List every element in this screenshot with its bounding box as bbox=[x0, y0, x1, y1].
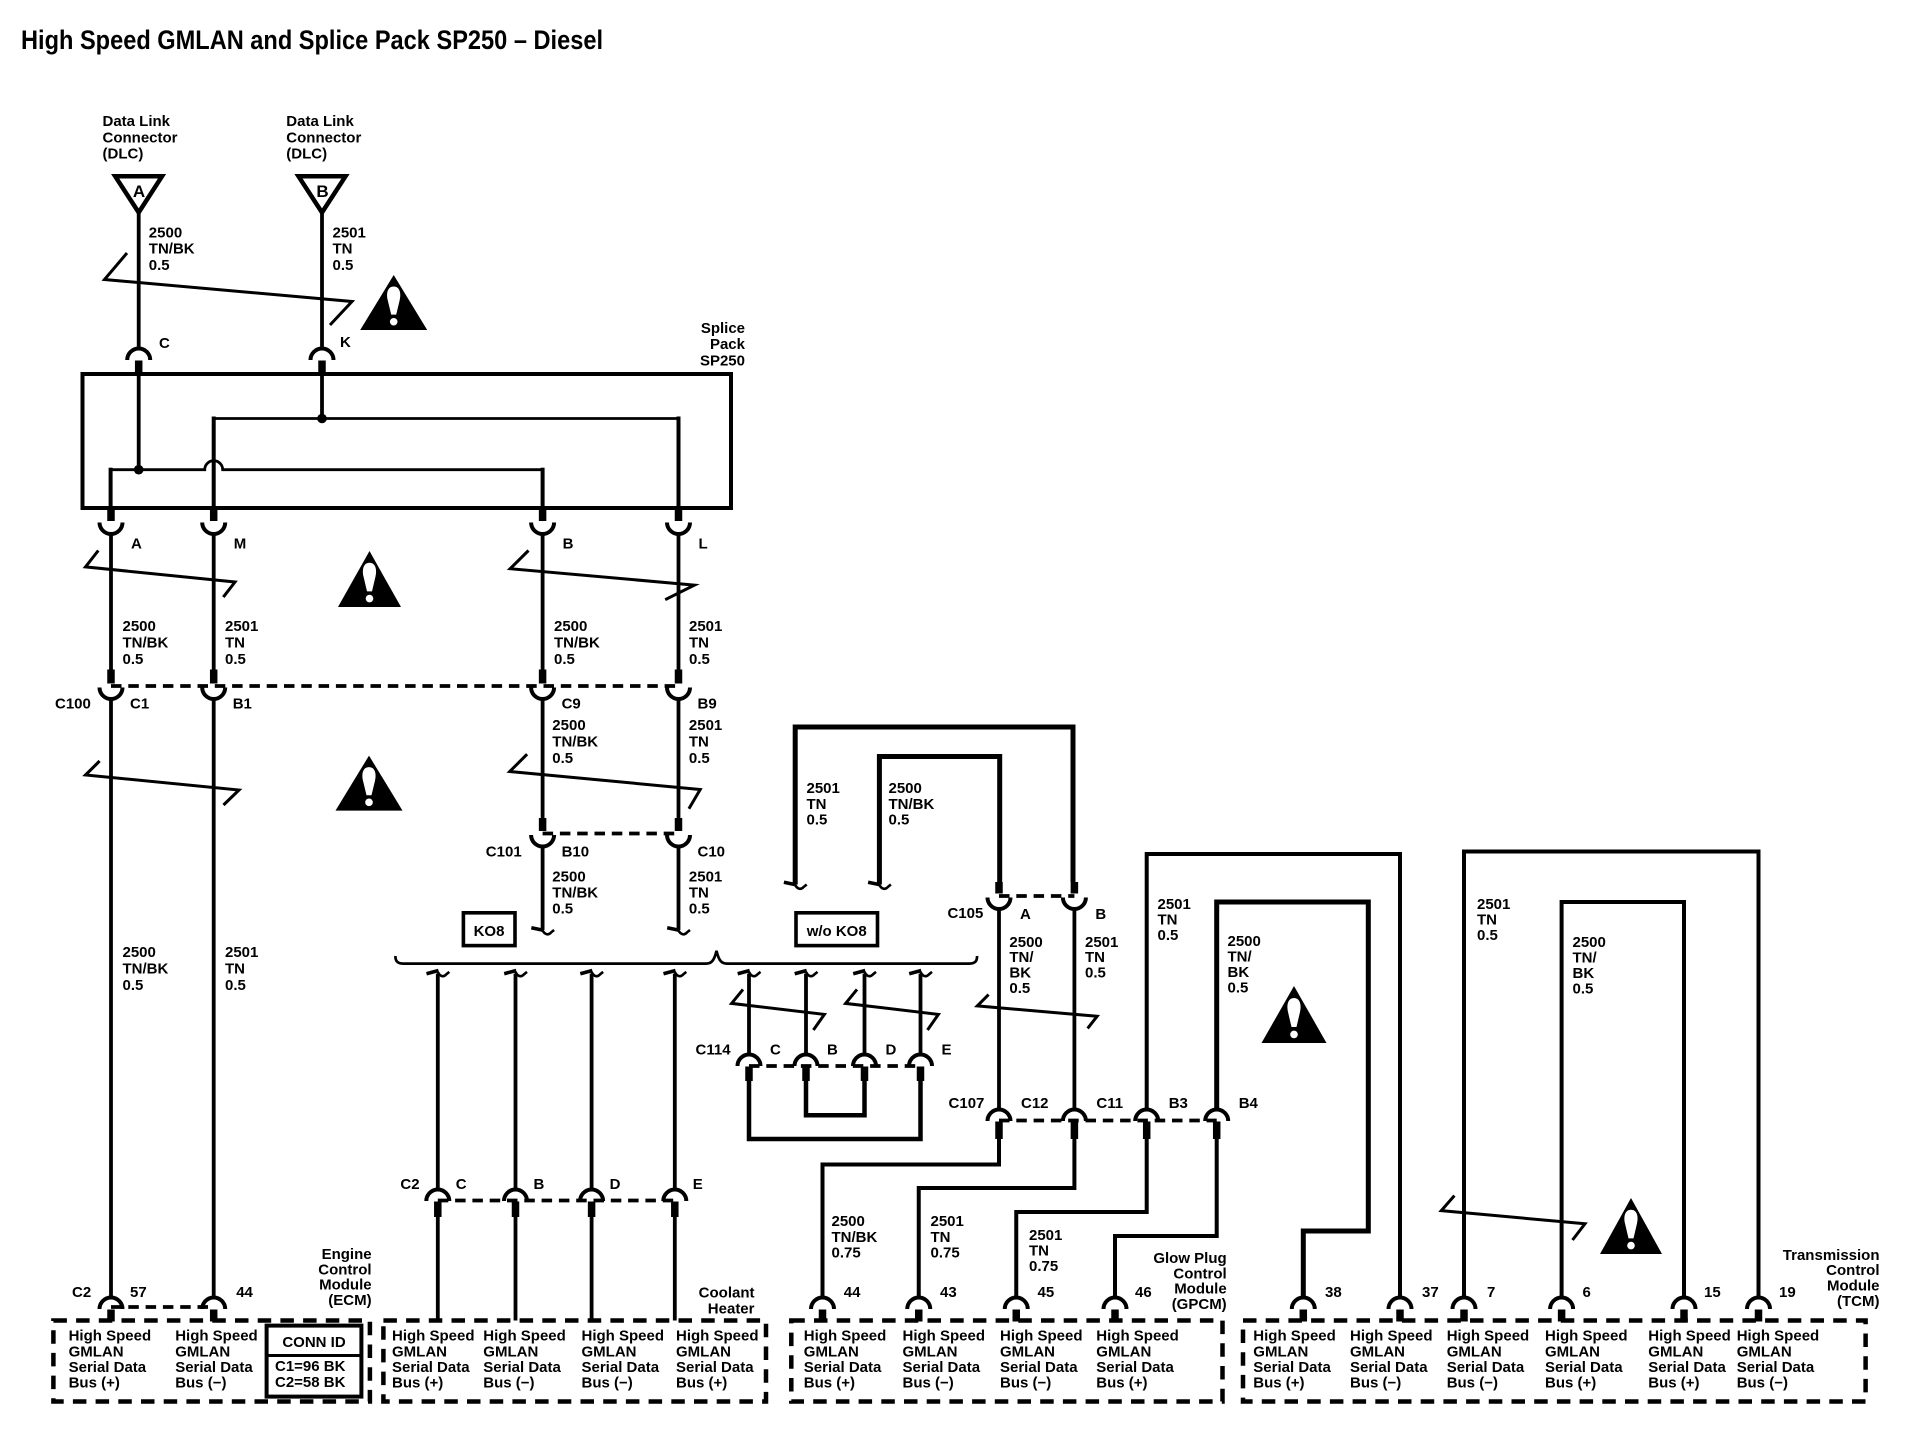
inline connector C101 dashed line bbox=[543, 832, 679, 836]
svg-text:C101: C101 bbox=[486, 844, 522, 861]
connector C2 coolant heater pin C bbox=[426, 1176, 467, 1217]
svg-text:High Speed: High Speed bbox=[392, 1328, 475, 1345]
svg-text:M: M bbox=[234, 536, 247, 553]
svg-text:A: A bbox=[1020, 906, 1031, 923]
connector C105 pin B bbox=[1063, 882, 1107, 923]
svg-text:0.5: 0.5 bbox=[689, 901, 710, 918]
wire C114 pin E from w/o KO8 bus bbox=[909, 971, 932, 1055]
wire coolant heater pin D from KO8 bus bbox=[580, 971, 603, 1191]
svg-text:C114: C114 bbox=[696, 1042, 732, 1059]
connector C2 coolant heater pin E bbox=[663, 1176, 703, 1217]
svg-text:C2: C2 bbox=[400, 1176, 419, 1193]
warning triangle 3 bbox=[336, 756, 403, 811]
svg-text:B1: B1 bbox=[233, 696, 252, 713]
svg-text:TN: TN bbox=[1158, 912, 1178, 929]
svg-text:38: 38 bbox=[1325, 1284, 1342, 1301]
svg-text:D: D bbox=[610, 1176, 621, 1193]
splice pack pin A bbox=[100, 508, 143, 553]
svg-text:High Speed: High Speed bbox=[69, 1328, 152, 1345]
wire 2501 C107-B3 to pin 37 bbox=[1147, 854, 1400, 1298]
KO8 option box bbox=[463, 913, 515, 946]
svg-text:TN: TN bbox=[1477, 912, 1497, 929]
svg-text:44: 44 bbox=[236, 1284, 253, 1301]
connector C100 pin B1 bbox=[202, 670, 252, 713]
inline connector C100 dashed line bbox=[111, 684, 679, 688]
svg-text:High Speed: High Speed bbox=[582, 1328, 665, 1345]
svg-text:TN: TN bbox=[1029, 1243, 1049, 1260]
loop wire 2500 TN/BK to C105 pin A bbox=[868, 757, 1000, 889]
svg-text:C2: C2 bbox=[72, 1284, 91, 1301]
svg-text:TN/BK: TN/BK bbox=[554, 635, 600, 652]
wire C107-B4 to GPCM pin 46 bbox=[1115, 1139, 1217, 1298]
svg-text:A: A bbox=[133, 182, 145, 201]
svg-text:2501: 2501 bbox=[1477, 896, 1510, 913]
splice pack pin M bbox=[202, 508, 246, 553]
svg-text:GMLAN: GMLAN bbox=[903, 1343, 958, 1360]
svg-text:Bus (+): Bus (+) bbox=[1648, 1375, 1699, 1392]
svg-text:GMLAN: GMLAN bbox=[1253, 1343, 1308, 1360]
wire coolant heater lead bbox=[673, 1217, 677, 1321]
twisted pair symbol (wires B/L) bbox=[510, 551, 694, 600]
svg-text:C100: C100 bbox=[55, 696, 91, 713]
splice pack pin K bbox=[311, 334, 352, 374]
svg-text:GMLAN: GMLAN bbox=[1096, 1343, 1151, 1360]
svg-text:46: 46 bbox=[1135, 1284, 1152, 1301]
svg-text:0.5: 0.5 bbox=[554, 651, 575, 668]
wire 2500 C107-B4 to pin 38 bbox=[1217, 902, 1369, 1298]
wire L (2501) C100 to C101 bbox=[677, 699, 681, 819]
svg-text:SP250: SP250 bbox=[700, 352, 745, 369]
svg-text:Bus (−): Bus (−) bbox=[1447, 1375, 1498, 1392]
svg-text:2501: 2501 bbox=[225, 944, 258, 961]
svg-text:Serial Data: Serial Data bbox=[1545, 1359, 1623, 1376]
wire C107-C11 to GPCM pin 43 bbox=[919, 1139, 1075, 1298]
svg-text:TN: TN bbox=[333, 241, 353, 258]
w/o KO8 option box bbox=[796, 913, 878, 946]
svg-text:2500: 2500 bbox=[552, 717, 585, 734]
svg-text:B: B bbox=[1095, 906, 1106, 923]
connector C105 pin A bbox=[988, 882, 1032, 923]
svg-text:C1: C1 bbox=[130, 696, 149, 713]
wire coolant heater lead bbox=[590, 1217, 594, 1321]
svg-text:TN: TN bbox=[689, 635, 709, 652]
svg-text:2501: 2501 bbox=[689, 618, 722, 635]
svg-text:Serial Data: Serial Data bbox=[804, 1359, 882, 1376]
svg-text:2501: 2501 bbox=[807, 780, 840, 797]
svg-text:37: 37 bbox=[1422, 1284, 1439, 1301]
connector TCM pin 15 bbox=[1673, 1284, 1721, 1322]
svg-text:C107: C107 bbox=[949, 1095, 985, 1112]
svg-text:Splice: Splice bbox=[701, 320, 745, 337]
ECM module box bbox=[53, 1321, 370, 1402]
svg-text:C1=96 BK: C1=96 BK bbox=[275, 1358, 346, 1375]
svg-text:0.5: 0.5 bbox=[225, 651, 246, 668]
svg-text:C9: C9 bbox=[562, 696, 581, 713]
svg-text:0.75: 0.75 bbox=[832, 1244, 861, 1261]
svg-text:Serial Data: Serial Data bbox=[1648, 1359, 1726, 1376]
splice pack SP250 box bbox=[83, 374, 732, 508]
connector GPCM pin 44 bbox=[811, 1284, 861, 1322]
connector GPCM pin 43 bbox=[907, 1284, 956, 1322]
svg-text:15: 15 bbox=[1704, 1284, 1721, 1301]
wire C114 pin D from w/o KO8 bus bbox=[853, 971, 876, 1055]
connector C2 (ECM) dashed line bbox=[111, 1305, 214, 1309]
connector C101 pin B10 bbox=[531, 818, 589, 861]
svg-text:L: L bbox=[699, 536, 708, 553]
svg-text:B: B bbox=[563, 536, 574, 553]
svg-text:0.5: 0.5 bbox=[1009, 980, 1030, 997]
svg-text:TN/BK: TN/BK bbox=[149, 241, 195, 258]
svg-text:Bus (+): Bus (+) bbox=[804, 1375, 855, 1392]
svg-text:E: E bbox=[693, 1176, 703, 1193]
svg-text:Data Link: Data Link bbox=[286, 113, 354, 130]
svg-text:Bus (−): Bus (−) bbox=[1350, 1375, 1401, 1392]
wire B10 (2500) to KO8 bus bbox=[531, 847, 554, 935]
DLC terminal A triangle bbox=[115, 176, 162, 212]
svg-text:B: B bbox=[316, 182, 328, 201]
svg-text:Bus (+): Bus (+) bbox=[1545, 1375, 1596, 1392]
connector C114 pin C bbox=[738, 1042, 782, 1082]
svg-text:GMLAN: GMLAN bbox=[483, 1343, 538, 1360]
wire 2501 C105-B to C107-C11 bbox=[1073, 909, 1077, 1111]
connector C100 pin C1 bbox=[100, 670, 150, 713]
svg-text:2501: 2501 bbox=[689, 717, 722, 734]
wire coolant heater lead bbox=[514, 1217, 518, 1321]
svg-text:B: B bbox=[827, 1042, 838, 1059]
svg-text:GMLAN: GMLAN bbox=[392, 1343, 447, 1360]
wire B (2500) C100 to C101 bbox=[541, 699, 545, 819]
warning triangle 2 bbox=[338, 551, 401, 607]
CONN ID table bbox=[267, 1326, 362, 1397]
wire M (2501) C100 to ECM pin 44 bbox=[212, 699, 216, 1298]
wire coolant heater pin E from KO8 bus bbox=[664, 971, 687, 1191]
svg-text:0.5: 0.5 bbox=[1573, 980, 1594, 997]
connector C100 pin B9 bbox=[667, 670, 717, 713]
svg-text:19: 19 bbox=[1779, 1284, 1796, 1301]
svg-text:Serial Data: Serial Data bbox=[903, 1359, 981, 1376]
svg-text:Coolant: Coolant bbox=[699, 1284, 755, 1301]
svg-text:TN: TN bbox=[225, 960, 245, 977]
svg-text:Serial Data: Serial Data bbox=[1737, 1359, 1815, 1376]
svg-text:D: D bbox=[886, 1042, 897, 1059]
wire 2501 TN from DLC B to splice pack pin K bbox=[320, 213, 324, 350]
connector pin 38 bbox=[1292, 1284, 1342, 1322]
svg-text:Bus (+): Bus (+) bbox=[392, 1375, 443, 1392]
inline connector C107 dashed line bbox=[999, 1119, 1217, 1123]
connector C107 pin B4 bbox=[1205, 1095, 1258, 1139]
svg-text:CONN ID: CONN ID bbox=[282, 1334, 346, 1351]
svg-text:C: C bbox=[770, 1042, 781, 1059]
svg-text:GMLAN: GMLAN bbox=[676, 1343, 731, 1360]
svg-text:High Speed: High Speed bbox=[1737, 1328, 1820, 1345]
coolant heater module box bbox=[383, 1321, 766, 1402]
svg-text:2501: 2501 bbox=[1029, 1227, 1062, 1244]
svg-text:Serial Data: Serial Data bbox=[1096, 1359, 1174, 1376]
svg-text:Bus (−): Bus (−) bbox=[175, 1375, 226, 1392]
wire 2500 C105-A to C107-C12 bbox=[997, 909, 1001, 1111]
connector C114 pin E bbox=[909, 1042, 952, 1082]
svg-text:High Speed: High Speed bbox=[175, 1328, 258, 1345]
svg-text:TN/BK: TN/BK bbox=[123, 635, 169, 652]
splice pack pin L bbox=[667, 508, 708, 553]
svg-text:Serial Data: Serial Data bbox=[175, 1359, 253, 1376]
wire C114 pin B from w/o KO8 bus bbox=[795, 971, 818, 1055]
connector TCM pin 7 bbox=[1453, 1284, 1496, 1322]
svg-text:TN/BK: TN/BK bbox=[123, 960, 169, 977]
svg-text:0.75: 0.75 bbox=[931, 1244, 960, 1261]
svg-text:0.5: 0.5 bbox=[1085, 965, 1106, 982]
svg-text:Data Link: Data Link bbox=[103, 113, 171, 130]
svg-text:GMLAN: GMLAN bbox=[1447, 1343, 1502, 1360]
svg-text:High Speed: High Speed bbox=[1096, 1328, 1179, 1345]
twisted pair symbol (C114 wires C/B) bbox=[732, 989, 825, 1030]
svg-text:0.5: 0.5 bbox=[889, 812, 910, 829]
svg-text:B3: B3 bbox=[1169, 1095, 1188, 1112]
svg-text:Serial Data: Serial Data bbox=[582, 1359, 660, 1376]
svg-text:GMLAN: GMLAN bbox=[1000, 1343, 1055, 1360]
svg-text:High Speed: High Speed bbox=[1648, 1328, 1731, 1345]
wire segment M (2501) splice pack to C100 bbox=[212, 534, 216, 670]
wire segment A (2500) splice pack to C100 bbox=[109, 534, 113, 670]
svg-text:Bus (+): Bus (+) bbox=[676, 1375, 727, 1392]
svg-text:TN: TN bbox=[931, 1229, 951, 1246]
svg-text:A: A bbox=[131, 536, 142, 553]
svg-text:B10: B10 bbox=[562, 844, 590, 861]
inline connector C105 dashed line bbox=[999, 894, 1074, 898]
svg-text:(GPCM): (GPCM) bbox=[1172, 1296, 1227, 1313]
wire C10 (2501) to KO8 bus bbox=[667, 847, 690, 935]
wire 2500 TN/BK from DLC A to splice pack pin C bbox=[137, 213, 141, 350]
svg-text:Bus (+): Bus (+) bbox=[69, 1375, 120, 1392]
svg-text:Serial Data: Serial Data bbox=[676, 1359, 754, 1376]
warning triangle 5 bbox=[1600, 1198, 1662, 1254]
svg-text:0.5: 0.5 bbox=[123, 977, 144, 994]
svg-text:B4: B4 bbox=[1239, 1095, 1259, 1112]
svg-text:2500: 2500 bbox=[832, 1213, 865, 1230]
svg-text:Connector: Connector bbox=[286, 129, 361, 146]
jumper C114 B to D bbox=[806, 1079, 865, 1115]
connector TCM pin 19 bbox=[1747, 1284, 1796, 1322]
svg-text:High Speed: High Speed bbox=[903, 1328, 986, 1345]
svg-text:Serial Data: Serial Data bbox=[1000, 1359, 1078, 1376]
svg-text:0.5: 0.5 bbox=[552, 901, 573, 918]
svg-text:6: 6 bbox=[1583, 1284, 1591, 1301]
svg-text:High Speed: High Speed bbox=[1253, 1328, 1336, 1345]
inline connector C2 (coolant heater) dashed line bbox=[438, 1199, 675, 1203]
wire coolant heater pin B from KO8 bus bbox=[504, 971, 527, 1191]
svg-text:(DLC): (DLC) bbox=[286, 146, 327, 163]
svg-text:Serial Data: Serial Data bbox=[483, 1359, 561, 1376]
twisted pair symbol (C105 wires) bbox=[977, 995, 1097, 1029]
TCM module box bbox=[1243, 1321, 1866, 1402]
svg-text:High Speed: High Speed bbox=[1545, 1328, 1628, 1345]
svg-text:K: K bbox=[340, 334, 351, 351]
svg-text:C105: C105 bbox=[947, 905, 983, 922]
svg-text:C12: C12 bbox=[1021, 1095, 1049, 1112]
bus 2500 inside splice pack (C to A and B) bbox=[111, 374, 543, 507]
svg-text:Bus (−): Bus (−) bbox=[903, 1375, 954, 1392]
svg-text:Bus (+): Bus (+) bbox=[1253, 1375, 1304, 1392]
svg-text:2500: 2500 bbox=[552, 869, 585, 886]
svg-text:Serial Data: Serial Data bbox=[1447, 1359, 1525, 1376]
svg-text:Pack: Pack bbox=[710, 336, 746, 353]
svg-text:0.5: 0.5 bbox=[552, 750, 573, 767]
DLC terminal B triangle bbox=[299, 176, 346, 212]
svg-text:Serial Data: Serial Data bbox=[69, 1359, 147, 1376]
connector C100 pin C9 bbox=[531, 670, 581, 713]
connector C114 pin D bbox=[853, 1042, 897, 1082]
svg-text:C: C bbox=[456, 1176, 467, 1193]
svg-text:0.5: 0.5 bbox=[149, 257, 170, 274]
GPCM module box bbox=[791, 1321, 1222, 1402]
svg-text:44: 44 bbox=[844, 1284, 861, 1301]
wire C107-C12 to GPCM pin 44 bbox=[823, 1139, 1000, 1298]
svg-text:TN: TN bbox=[225, 635, 245, 652]
svg-text:GMLAN: GMLAN bbox=[69, 1343, 124, 1360]
svg-text:GMLAN: GMLAN bbox=[1737, 1343, 1792, 1360]
svg-text:Serial Data: Serial Data bbox=[392, 1359, 470, 1376]
svg-text:57: 57 bbox=[130, 1284, 147, 1301]
svg-text:Connector: Connector bbox=[103, 129, 178, 146]
svg-text:0.5: 0.5 bbox=[807, 812, 828, 829]
connector C101 pin C10 bbox=[667, 818, 725, 861]
svg-text:GMLAN: GMLAN bbox=[582, 1343, 637, 1360]
svg-text:2500: 2500 bbox=[149, 225, 182, 242]
wire A (2500) C100 to ECM pin 57 bbox=[109, 699, 113, 1298]
svg-text:0.5: 0.5 bbox=[1158, 927, 1179, 944]
connector C107 pin C12 bbox=[988, 1095, 1049, 1139]
loop wire 2501 TN to C105 pin B bbox=[784, 727, 1073, 889]
svg-text:(TCM): (TCM) bbox=[1837, 1293, 1879, 1310]
svg-text:TN: TN bbox=[689, 885, 709, 902]
twisted pair symbol (DLC wires) bbox=[105, 253, 353, 325]
twisted pair symbol (C114 wires D/E) bbox=[846, 989, 939, 1030]
svg-text:KO8: KO8 bbox=[474, 923, 505, 940]
svg-text:C2=58 BK: C2=58 BK bbox=[275, 1374, 346, 1391]
svg-text:2501: 2501 bbox=[1158, 896, 1191, 913]
connector pin 37 bbox=[1389, 1284, 1439, 1322]
svg-text:43: 43 bbox=[940, 1284, 957, 1301]
svg-text:0.5: 0.5 bbox=[689, 750, 710, 767]
svg-text:Bus (−): Bus (−) bbox=[582, 1375, 633, 1392]
TCM outer loop wire 2501 pins 7-19 bbox=[1464, 852, 1759, 1299]
wire segment B (2500) splice pack to C100 bbox=[541, 534, 545, 670]
wire coolant heater lead bbox=[436, 1217, 440, 1321]
svg-text:High Speed: High Speed bbox=[1350, 1328, 1433, 1345]
svg-text:GMLAN: GMLAN bbox=[175, 1343, 230, 1360]
connector TCM pin 6 bbox=[1550, 1284, 1591, 1322]
svg-text:TN/BK: TN/BK bbox=[832, 1229, 878, 1246]
twisted pair symbol (wires B/L lower) bbox=[510, 754, 700, 809]
svg-text:High Speed: High Speed bbox=[804, 1328, 887, 1345]
svg-text:0.75: 0.75 bbox=[1029, 1258, 1058, 1275]
svg-text:C11: C11 bbox=[1096, 1095, 1123, 1112]
svg-text:GMLAN: GMLAN bbox=[1350, 1343, 1405, 1360]
svg-text:Bus (−): Bus (−) bbox=[1000, 1375, 1051, 1392]
wire coolant heater pin C from KO8 bus bbox=[427, 971, 450, 1191]
jumper C114 C to E bbox=[749, 1079, 921, 1139]
svg-text:High Speed: High Speed bbox=[1000, 1328, 1083, 1345]
connector ECM pin 44 bbox=[202, 1284, 253, 1322]
svg-text:C10: C10 bbox=[698, 844, 726, 861]
svg-text:45: 45 bbox=[1038, 1284, 1055, 1301]
svg-text:High Speed GMLAN and Splice Pa: High Speed GMLAN and Splice Pack SP250 –… bbox=[21, 25, 603, 55]
svg-text:(ECM): (ECM) bbox=[328, 1292, 371, 1309]
warning triangle 4 bbox=[1262, 986, 1327, 1043]
svg-text:w/o KO8: w/o KO8 bbox=[806, 923, 867, 940]
connector C114 pin B bbox=[795, 1042, 839, 1082]
svg-text:0.5: 0.5 bbox=[333, 257, 354, 274]
twisted pair symbol (TCM wires) bbox=[1441, 1196, 1585, 1240]
svg-text:GMLAN: GMLAN bbox=[1648, 1343, 1703, 1360]
wire segment L (2501) splice pack to C100 bbox=[677, 534, 681, 670]
svg-text:E: E bbox=[942, 1042, 952, 1059]
svg-text:0.5: 0.5 bbox=[123, 651, 144, 668]
svg-text:TN: TN bbox=[689, 734, 709, 751]
svg-text:TN/BK: TN/BK bbox=[552, 734, 598, 751]
splice pack pin C bbox=[127, 335, 170, 374]
variant selection brace bbox=[395, 951, 977, 964]
svg-text:Serial Data: Serial Data bbox=[1253, 1359, 1331, 1376]
svg-text:High Speed: High Speed bbox=[1447, 1328, 1530, 1345]
svg-text:2501: 2501 bbox=[931, 1213, 964, 1230]
svg-text:Serial Data: Serial Data bbox=[1350, 1359, 1428, 1376]
splice pack pin B bbox=[531, 508, 574, 553]
connector C107 pin C11 bbox=[1063, 1095, 1123, 1139]
connector C107 pin B3 bbox=[1135, 1095, 1188, 1139]
connector GPCM pin 45 bbox=[1005, 1284, 1054, 1322]
twisted pair symbol (wires A/M lower) bbox=[86, 761, 240, 805]
wire C107-B3 to GPCM pin 45 bbox=[1016, 1139, 1146, 1298]
TCM inner loop wire 2500 pins 6-15 bbox=[1562, 902, 1684, 1298]
svg-text:TN: TN bbox=[807, 796, 827, 813]
svg-text:0.5: 0.5 bbox=[1228, 979, 1249, 996]
svg-text:High Speed: High Speed bbox=[483, 1328, 566, 1345]
svg-text:7: 7 bbox=[1487, 1284, 1495, 1301]
svg-text:C: C bbox=[159, 335, 170, 352]
svg-text:2501: 2501 bbox=[225, 618, 258, 635]
svg-text:B: B bbox=[534, 1176, 545, 1193]
bus 2501 inside splice pack (K to M and L) bbox=[214, 374, 679, 507]
svg-text:0.5: 0.5 bbox=[1477, 927, 1498, 944]
svg-text:Bus (+): Bus (+) bbox=[1096, 1375, 1147, 1392]
svg-text:GMLAN: GMLAN bbox=[804, 1343, 859, 1360]
svg-text:2500: 2500 bbox=[123, 618, 156, 635]
svg-text:Bus (−): Bus (−) bbox=[483, 1375, 534, 1392]
inline connector C114 dashed line bbox=[749, 1064, 921, 1068]
svg-text:2501: 2501 bbox=[333, 225, 366, 242]
twisted pair symbol (wires A/M) bbox=[86, 551, 236, 598]
svg-text:0.5: 0.5 bbox=[689, 651, 710, 668]
svg-text:B9: B9 bbox=[698, 696, 717, 713]
svg-text:(DLC): (DLC) bbox=[103, 146, 144, 163]
connector C2 coolant heater pin D bbox=[580, 1176, 621, 1217]
wire C114 pin C from w/o KO8 bus bbox=[738, 971, 761, 1055]
svg-text:TN/BK: TN/BK bbox=[889, 796, 935, 813]
svg-text:0.5: 0.5 bbox=[225, 977, 246, 994]
connector C2 coolant heater pin B bbox=[504, 1176, 545, 1217]
svg-text:2500: 2500 bbox=[889, 780, 922, 797]
svg-text:TN/BK: TN/BK bbox=[552, 885, 598, 902]
svg-text:High Speed: High Speed bbox=[676, 1328, 759, 1345]
svg-text:Bus (−): Bus (−) bbox=[1737, 1375, 1788, 1392]
warning triangle 1 bbox=[360, 275, 427, 330]
svg-text:2500: 2500 bbox=[123, 944, 156, 961]
connector ECM pin 57 bbox=[100, 1284, 147, 1322]
svg-text:GMLAN: GMLAN bbox=[1545, 1343, 1600, 1360]
svg-text:2501: 2501 bbox=[689, 869, 722, 886]
svg-text:Heater: Heater bbox=[708, 1300, 755, 1317]
